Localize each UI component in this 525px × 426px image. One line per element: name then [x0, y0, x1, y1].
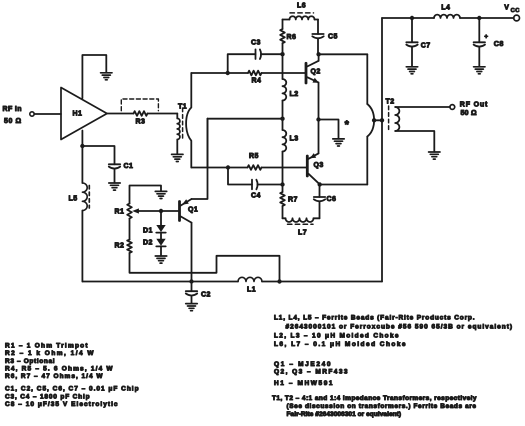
ground C8 — [474, 67, 485, 74]
capacitor C4 — [251, 180, 261, 200]
svg-text:#2643000101 or Ferroxcube #56: #2643000101 or Ferroxcube #56 590 65/3B … — [286, 323, 513, 330]
wire Q2 emitter — [318, 82, 320, 153]
svg-text:RF Out: RF Out — [460, 102, 488, 109]
svg-text:Q1: Q1 — [188, 207, 198, 214]
node R1 wiper — [159, 209, 163, 213]
svg-text:+: + — [484, 34, 488, 41]
svg-text:C7: C7 — [421, 42, 431, 49]
svg-text:Q3: Q3 — [314, 162, 324, 169]
transformer T1 secondary — [186, 73, 191, 168]
node L2 L3 — [280, 117, 284, 121]
ground C2 — [186, 304, 197, 311]
capacitor C1 — [109, 163, 134, 170]
transformer T1 primary — [177, 104, 187, 140]
wire Vcc vertical — [381, 18, 383, 282]
ground C7 — [406, 67, 417, 74]
wire rail L1 to corner — [262, 281, 382, 283]
inductor L5 — [69, 183, 90, 211]
wire H1 top to ground — [82, 55, 106, 98]
svg-text:R4, R5 – 5. 6 Ohms, 1/4 W: R4, R5 – 5. 6 Ohms, 1/4 W — [5, 366, 113, 373]
wire T1 top to R4 — [191, 72, 227, 74]
svg-text:H1 – MHW591: H1 – MHW591 — [274, 380, 333, 387]
wire C6 to collector — [319, 185, 321, 198]
op-amp H1 — [61, 88, 107, 140]
svg-text:CC: CC — [511, 8, 521, 14]
svg-text:L7: L7 — [298, 230, 307, 237]
wire T1 bottom to R5 — [191, 167, 228, 169]
svg-text:T2: T2 — [386, 99, 395, 106]
asterisk note — [345, 119, 350, 131]
T2 core — [388, 106, 390, 131]
node Q3 collector — [318, 182, 322, 186]
svg-text:Q1 – MJE240: Q1 – MJE240 — [274, 361, 331, 368]
svg-text:R3: R3 — [136, 119, 146, 126]
wire T1 primary to ground — [176, 140, 178, 155]
svg-text:L1: L1 — [247, 287, 256, 294]
svg-text:C1, C2, C5, C6, C7 – 0.01 μF C: C1, C2, C5, C6, C7 – 0.01 μF Chip — [5, 386, 139, 393]
wire T2 bottom to ground — [395, 131, 434, 152]
RF Out terminal — [450, 105, 455, 110]
dashed jumper R3 — [121, 99, 158, 111]
svg-text:(See discussion on transformer: (See discussion on transformers.) Ferrit… — [287, 403, 477, 410]
ground T1 — [172, 154, 183, 161]
svg-text:T1, T2 – 4:1 and 1:4 Impedance: T1, T2 – 4:1 and 1:4 Impedance Transform… — [272, 395, 477, 402]
T1 core — [182, 108, 184, 140]
svg-text:Q2, Q3 – MRF433: Q2, Q3 – MRF433 — [274, 368, 348, 375]
ground R1 top — [155, 191, 166, 198]
wire RF In to H1 — [34, 113, 61, 115]
capacitor C5 — [312, 34, 338, 41]
ground D2 — [155, 256, 166, 263]
capacitor C8 — [474, 18, 504, 48]
inductor L1 — [238, 277, 262, 293]
inductor L3 — [283, 130, 299, 152]
notes right column — [272, 315, 513, 418]
wire bottom rail left — [82, 281, 238, 283]
ground emitters — [333, 139, 344, 146]
diode D1 — [143, 211, 166, 235]
svg-text:V: V — [504, 5, 509, 12]
wire to L5 — [81, 146, 83, 183]
svg-text:C3: C3 — [251, 40, 261, 47]
wire Vcc rail left — [382, 17, 434, 19]
wire R5 leads — [228, 167, 306, 169]
svg-text:L2, L3 – 10 μH Molded Choke: L2, L3 – 10 μH Molded Choke — [274, 333, 399, 340]
wire C3 branch — [228, 54, 256, 73]
capacitor C2 — [186, 282, 211, 299]
node C8 — [477, 16, 481, 20]
wire C7 to ground — [411, 47, 413, 66]
svg-text:L6, L7 – 0.1 μH Molded Choke: L6, L7 – 0.1 μH Molded Choke — [274, 341, 406, 348]
svg-text:L3: L3 — [290, 136, 299, 143]
svg-text:*: * — [345, 119, 350, 131]
node Q2 collector — [316, 52, 320, 56]
svg-text:R5: R5 — [249, 153, 259, 160]
svg-text:Fair-Rite #2643006301 or equiv: Fair-Rite #2643006301 or equivalent) — [287, 411, 402, 418]
Vcc label — [504, 5, 520, 15]
wire R4 leads — [228, 72, 306, 74]
resistor R1 — [115, 204, 132, 219]
svg-text:R6: R6 — [287, 34, 297, 41]
wire C1 to ground — [114, 169, 116, 183]
svg-text:L6: L6 — [297, 3, 306, 10]
wire Q3 collector rail — [320, 184, 368, 186]
wire C4 branch — [228, 168, 252, 185]
svg-text:R3 – Optional: R3 – Optional — [5, 358, 55, 365]
wire Q1 collector — [191, 223, 193, 282]
wire Q2 collector — [318, 54, 320, 61]
node L3 R7 — [280, 182, 284, 186]
resistor R7 — [280, 185, 298, 219]
svg-text:C6: C6 — [327, 196, 337, 203]
wire C3 right — [261, 53, 283, 55]
svg-text:R2 – 1 k Ohm, 1/4 W: R2 – 1 k Ohm, 1/4 W — [5, 350, 94, 357]
wire center tap — [374, 119, 382, 121]
wire wiper to Q1 base — [161, 210, 178, 212]
node H1 bias — [80, 144, 84, 148]
inductor L4 — [434, 5, 460, 18]
svg-text:C8: C8 — [494, 39, 504, 48]
wire R1 top to ground — [130, 186, 162, 204]
wire R1 to R2 — [129, 219, 131, 240]
inductor L7 — [283, 218, 320, 236]
node C7 — [410, 16, 414, 20]
transistor Q1 — [180, 199, 199, 223]
wire T2 to RF Out — [395, 106, 450, 108]
svg-text:RF In: RF In — [3, 106, 23, 113]
svg-text:R1: R1 — [115, 209, 125, 216]
wire R2 bypass — [130, 253, 280, 282]
svg-text:D1: D1 — [143, 228, 153, 235]
wire R3 to T1 — [148, 113, 178, 115]
wire C4 right — [257, 184, 282, 186]
node Q1 collector/C2 — [189, 279, 193, 283]
transistor Q2 — [306, 61, 321, 83]
node R4 left — [226, 71, 230, 75]
node C3 right — [280, 52, 284, 56]
node T2 center tap — [372, 118, 376, 122]
node R5 left — [226, 165, 230, 169]
svg-text:D2: D2 — [143, 240, 153, 247]
inductor L2 — [283, 79, 299, 101]
svg-text:C8 – 10 μF/35 V Electrolytic: C8 – 10 μF/35 V Electrolytic — [5, 401, 118, 408]
wire H1 bottom — [81, 131, 83, 147]
wire node to L3 — [282, 119, 284, 130]
wire Q1 emitter — [192, 119, 208, 199]
resistor R3 — [134, 111, 148, 125]
wire L5 to rail — [81, 211, 83, 282]
svg-text:50 Ω: 50 Ω — [4, 118, 22, 125]
inductor L6 — [283, 3, 319, 20]
svg-text:R1 – 1 Ohm Trimpot: R1 – 1 Ohm Trimpot — [5, 343, 88, 350]
wire L7 to C6 — [319, 202, 321, 218]
transistor Q3 — [307, 153, 323, 184]
ground C1 — [109, 183, 120, 190]
transformer T2 secondary — [395, 107, 399, 131]
svg-text:L4: L4 — [441, 5, 450, 12]
transformer T2 primary — [367, 54, 394, 184]
svg-text:R2: R2 — [115, 243, 125, 250]
notes left column — [5, 343, 139, 408]
wire C5 to collector — [317, 39, 319, 54]
capacitor C7 — [406, 18, 430, 49]
svg-text:C1: C1 — [124, 163, 134, 170]
wire L3 to node — [282, 152, 284, 185]
RF In label — [3, 106, 23, 125]
capacitor C6 — [314, 196, 337, 203]
wire bias to L2L3 node — [208, 118, 283, 120]
svg-text:C3, C4 – 1800 pF Chip: C3, C4 – 1800 pF Chip — [5, 393, 90, 400]
wire D2 to ground — [160, 246, 162, 255]
svg-text:L5: L5 — [69, 196, 78, 203]
ground H1 top — [101, 73, 112, 80]
ground T2 — [429, 152, 440, 159]
svg-text:R6, R7 – 47 Ohms, 1/4 W: R6, R7 – 47 Ohms, 1/4 W — [5, 373, 103, 380]
Vcc terminal — [514, 15, 520, 21]
wire emitters to ground — [319, 120, 339, 139]
wire bias vertical — [207, 119, 209, 168]
R1 wiper arrow — [132, 208, 161, 213]
wire L2 to node — [282, 101, 284, 119]
svg-text:L1, L4, L5 – Ferrite Beads (Fa: L1, L4, L5 – Ferrite Beads (Fair-Rite Pr… — [274, 315, 475, 322]
resistor R2 — [115, 240, 132, 253]
svg-text:C2: C2 — [201, 292, 211, 299]
diode D2 — [143, 233, 166, 247]
RF Out label — [460, 102, 488, 118]
wire Q2 collector rail — [319, 53, 368, 55]
capacitor C3 — [251, 40, 261, 60]
resistor R5 — [248, 153, 262, 170]
resistor R4 — [248, 71, 261, 85]
svg-text:H1: H1 — [73, 111, 83, 118]
node emitters — [316, 117, 320, 121]
svg-text:50 Ω: 50 Ω — [461, 110, 478, 117]
svg-text:C5: C5 — [328, 34, 338, 41]
svg-text:R4: R4 — [252, 78, 262, 85]
svg-text:C4: C4 — [251, 192, 261, 199]
svg-text:L2: L2 — [290, 91, 299, 98]
wire Vcc rail right — [460, 17, 514, 19]
svg-text:Q2: Q2 — [311, 69, 321, 76]
wire L6 to C5 — [317, 20, 319, 35]
wire C2 to ground — [191, 296, 193, 303]
node L1 right — [277, 279, 281, 283]
wire C8 to ground — [478, 47, 480, 66]
wire H1 out — [107, 113, 134, 115]
resistor R6 — [280, 20, 296, 55]
node Vcc line tap — [380, 118, 384, 122]
wire column base to L2 — [282, 54, 284, 79]
svg-text:R7: R7 — [288, 197, 298, 204]
wire to C1 — [82, 146, 114, 164]
RF In terminal — [30, 112, 34, 116]
